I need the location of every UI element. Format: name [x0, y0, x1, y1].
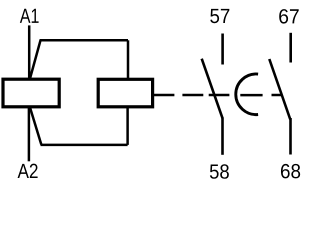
terminal label 68: [281, 164, 300, 179]
contact 57-58 bottom lead: [221, 118, 224, 155]
wire A2 lead: [28, 107, 31, 161]
terminal label 67: [279, 9, 298, 24]
early-make arc symbol: [236, 74, 258, 115]
wire bottom slant: [30, 108, 41, 145]
mechanical link chord through arc: [240, 94, 262, 97]
contact 57-58 blade: [202, 59, 223, 118]
wire top right vertical: [127, 40, 130, 79]
contact 67-68 blade: [269, 59, 290, 120]
mechanical link stub from module box: [153, 94, 174, 97]
coil box K1 (left rectangle): [3, 79, 59, 107]
terminal label A1: [20, 9, 39, 23]
mechanical link dash 2: [182, 94, 203, 97]
wire A1 lead: [28, 25, 31, 78]
mechanical link dash 3: [209, 94, 230, 97]
mechanical link dash 5: [272, 94, 282, 97]
terminal label 58: [210, 164, 229, 179]
contact 67-68 bottom lead: [289, 118, 292, 155]
terminal label A2: [18, 164, 38, 178]
module box (right rectangle): [98, 79, 152, 107]
wire bottom horizontal: [41, 144, 128, 147]
contact 57-58 top lead: [221, 34, 224, 65]
terminal label 57: [210, 9, 229, 23]
contact 67-68 top lead: [289, 33, 292, 63]
wire top slant: [30, 40, 41, 78]
wire top horizontal: [40, 39, 129, 42]
wire bottom right vertical: [126, 107, 129, 145]
